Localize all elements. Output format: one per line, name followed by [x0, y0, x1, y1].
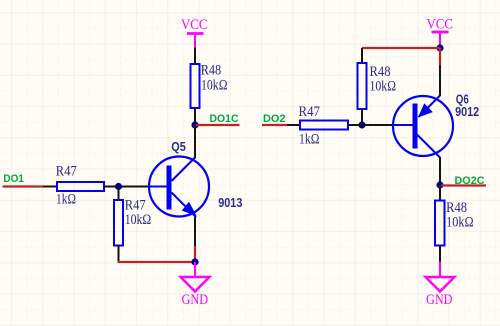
wire emitter to ground node (red) [194, 246, 196, 262]
junction at VCC node (right) [436, 44, 443, 51]
wire R48 to node DO1C [194, 108, 196, 125]
junction at base node (right) [358, 121, 365, 128]
net label DO1 [3, 173, 44, 187]
svg-text:GND: GND [182, 292, 209, 308]
power symbol VCC (right) [427, 17, 454, 47]
svg-text:10kΩ: 10kΩ [201, 78, 228, 94]
wire VCC node to R48 top (red) [362, 47, 440, 49]
wire R48 bottom down [439, 246, 441, 262]
resistor R48 (right pullup) [358, 63, 397, 109]
wire collector Q6 down [439, 157, 441, 185]
net label DO2 [262, 113, 287, 125]
power symbol VCC (left) [181, 17, 208, 48]
svg-text:9013: 9013 [218, 195, 242, 210]
ground GND (left) [181, 262, 210, 308]
svg-text:DO2: DO2 [263, 113, 286, 125]
wire to ground node (red, left) [118, 261, 196, 263]
svg-text:10kΩ: 10kΩ [125, 212, 152, 228]
svg-text:R48: R48 [201, 63, 222, 79]
svg-text:9012: 9012 [455, 104, 479, 119]
svg-text:VCC: VCC [427, 17, 454, 33]
wire DO2 to R47 (right) [287, 124, 300, 126]
ground GND (right) [426, 262, 455, 309]
transistor Q6 [393, 92, 479, 158]
svg-text:R47: R47 [299, 104, 321, 120]
svg-text:10kΩ: 10kΩ [446, 215, 474, 231]
junction at ground node (left) [191, 258, 198, 265]
junction at collector node (left) [191, 121, 198, 128]
svg-text:1kΩ: 1kΩ [56, 192, 76, 208]
net label DO2C [441, 175, 486, 187]
junction at collector node (right) [436, 181, 443, 188]
wire VCC node down (red) [439, 48, 441, 65]
junction at base node (left) [115, 183, 122, 190]
svg-text:10kΩ: 10kΩ [370, 79, 397, 95]
resistor R47 1k (right) [299, 104, 349, 148]
resistor R47 1k (left) [56, 164, 104, 208]
svg-text:1kΩ: 1kΩ [299, 132, 320, 148]
resistor R48 (left) [191, 63, 228, 109]
wire node to collector Q5 [194, 125, 196, 158]
net label DO1C [196, 113, 240, 125]
svg-text:DO1: DO1 [3, 173, 24, 185]
svg-text:R47: R47 [56, 164, 77, 180]
wire DO1 to R47 [43, 186, 57, 188]
wire R47 to base Q5 [104, 186, 150, 188]
svg-text:Q5: Q5 [171, 139, 186, 154]
resistor R47 10k (left pulldown) [114, 198, 151, 246]
wire emitter Q5 down [194, 217, 196, 246]
wire VCC to R48 (left) [194, 48, 196, 65]
wire base node down to R47 10k [118, 187, 120, 201]
wire R47 10k bottom [118, 246, 120, 262]
svg-text:DO1C: DO1C [210, 113, 239, 125]
svg-text:VCC: VCC [181, 17, 208, 33]
wire node to R48 (bottom right) [439, 185, 441, 201]
transistor Q5 [149, 139, 242, 217]
wire R48 to base node (right) [361, 109, 363, 125]
wire R47 to base Q6 [348, 124, 394, 126]
wire emitter Q6 to VCC [439, 65, 441, 96]
wire corner down to R48 (right) [361, 48, 363, 63]
svg-text:GND: GND [426, 292, 453, 308]
resistor R48 (bottom right) [435, 200, 474, 246]
